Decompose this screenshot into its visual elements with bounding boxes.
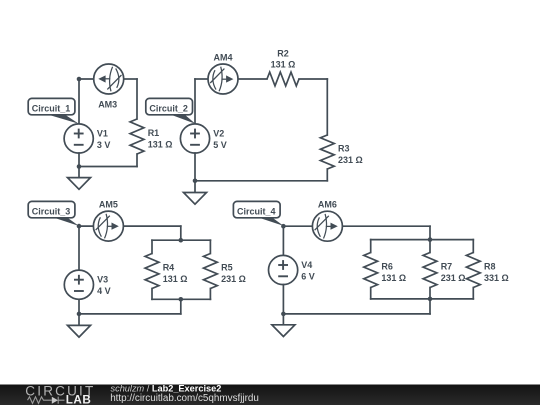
net flag Circuit_1 [28, 98, 79, 123]
wire corner-down-to-R1 [136, 79, 138, 119]
net flag Circuit_2 [146, 98, 196, 123]
wire ground stem c4 [282, 314, 284, 325]
ammeter AM6 [312, 211, 342, 241]
wire down-to-rail c3 [180, 226, 182, 240]
resistor R6 [364, 253, 378, 288]
wire top rail c4 [371, 239, 474, 241]
wire bottom rail c4 [371, 298, 474, 300]
wire R8 bottom lead [472, 288, 474, 299]
wire bottom c2 [195, 180, 327, 182]
svg-text:R8: R8 [484, 262, 496, 272]
wire corner-down-to-R3 [326, 79, 328, 135]
resistor R4 [145, 254, 159, 289]
svg-text:331 Ω: 331 Ω [484, 273, 509, 283]
wire corner-to-AM4 [195, 78, 208, 80]
svg-text:4 V: 4 V [97, 286, 111, 296]
node junction c1 top [77, 77, 82, 82]
svg-text:V3: V3 [97, 275, 108, 285]
resistor R7 [423, 253, 437, 288]
wire node-to-AM5 [79, 225, 93, 227]
wire AM6-right [342, 225, 430, 227]
wire R5 top lead [209, 240, 211, 253]
wire R4 bottom lead [151, 289, 153, 300]
svg-text:R3: R3 [338, 144, 350, 154]
svg-text:AM3: AM3 [98, 99, 117, 109]
svg-text:231 Ω: 231 Ω [441, 273, 466, 283]
svg-text:V4: V4 [301, 260, 312, 270]
svg-text:Circuit_4: Circuit_4 [237, 207, 276, 217]
junction c3 rail bottom [179, 297, 184, 302]
svg-text:V1: V1 [97, 129, 108, 139]
wire top rail c3 [152, 239, 210, 241]
wire R3-to-bottom [326, 169, 328, 181]
svg-text:231 Ω: 231 Ω [221, 274, 246, 284]
junction c4 rail top [428, 237, 433, 242]
node junction c3 bottom [77, 312, 82, 317]
resistor R3 [320, 135, 334, 169]
svg-text:AM5: AM5 [99, 200, 118, 210]
wire rail-down c3 [180, 299, 182, 314]
wire ground stem c2 [194, 181, 196, 193]
net flag Circuit_3 [28, 201, 79, 226]
svg-text:AM6: AM6 [318, 200, 337, 210]
wire R5 bottom lead [209, 289, 211, 300]
svg-text:Circuit_2: Circuit_2 [149, 104, 188, 114]
svg-text:131 Ω: 131 Ω [163, 274, 188, 284]
svg-text:3 V: 3 V [97, 140, 111, 150]
svg-text:R6: R6 [381, 262, 393, 272]
voltage source V2 [180, 124, 209, 153]
wire node-to-AM6 [283, 225, 312, 227]
resistor R8 [466, 253, 480, 288]
svg-text:R4: R4 [163, 263, 175, 273]
svg-text:V2: V2 [213, 129, 224, 139]
svg-text:http://circuitlab.com/c5qhmvsf: http://circuitlab.com/c5qhmvsfjjrdu [110, 393, 259, 404]
svg-text:R1: R1 [148, 128, 160, 138]
resistor R2 [267, 72, 299, 86]
footer bar [0, 385, 540, 405]
wire R7 top lead [429, 240, 431, 253]
svg-text:6 V: 6 V [301, 271, 315, 281]
node junction c1 bottom [77, 164, 82, 169]
wire down-to-rail c4 [429, 226, 431, 239]
svg-text:131 Ω: 131 Ω [271, 60, 296, 70]
svg-text:R7: R7 [441, 262, 453, 272]
ammeter AM4 [208, 64, 238, 94]
wire V1-bottom [78, 153, 80, 167]
wire AM4-to-R2 [238, 78, 267, 80]
svg-text:schulzm / Lab2_Exercise2: schulzm / Lab2_Exercise2 [111, 383, 222, 393]
wire R7 bottom lead [429, 288, 431, 299]
wire R8 top lead [472, 240, 474, 253]
svg-text:LAB: LAB [66, 393, 92, 405]
svg-text:131 Ω: 131 Ω [148, 139, 173, 149]
wire AM5-right [123, 225, 180, 227]
svg-text:AM4: AM4 [213, 53, 232, 63]
resistor R1 [130, 119, 144, 154]
svg-text:R2: R2 [277, 48, 289, 58]
ground c4 [272, 325, 295, 337]
wire V4-bottom [282, 285, 284, 314]
ammeter AM5 [93, 211, 123, 241]
net flag Circuit_4 [233, 201, 283, 226]
wire V3-bottom [78, 299, 80, 314]
svg-text:131 Ω: 131 Ω [381, 273, 406, 283]
wire bottom c4 [283, 313, 430, 315]
wire V2-bottom [194, 153, 196, 181]
wire bottom rail c3 [152, 298, 210, 300]
logo resistor-diode glyph [28, 397, 65, 404]
node junction c2 bottom [193, 179, 198, 184]
voltage source V3 [64, 270, 93, 299]
junction c3 rail top [179, 238, 184, 243]
voltage source V1 [64, 124, 93, 153]
svg-text:Circuit_1: Circuit_1 [32, 104, 71, 114]
wire bottom c1 [79, 166, 137, 168]
wire R4 top lead [151, 240, 153, 253]
wire R6 bottom lead [370, 288, 372, 299]
wire AM3-to-corner [124, 78, 137, 80]
wire rail-down c4 [429, 299, 431, 314]
ammeter AM3 [94, 64, 124, 94]
node junction c3 top [77, 224, 82, 229]
wire V4-top [282, 226, 284, 255]
ground c1 [68, 178, 91, 190]
wire V1-top [78, 79, 80, 124]
svg-text:231 Ω: 231 Ω [338, 155, 363, 165]
wire ground stem c1 [78, 167, 80, 178]
wire bottom c3 [79, 313, 181, 315]
svg-text:Circuit_3: Circuit_3 [32, 207, 71, 217]
voltage source V4 [269, 255, 298, 284]
wire V2-top-up [194, 79, 196, 124]
wire node-to-AM3 [79, 78, 94, 80]
svg-text:5 V: 5 V [213, 140, 227, 150]
svg-text:R5: R5 [221, 263, 233, 273]
ground c3 [68, 325, 91, 337]
node junction c4 bottom [281, 312, 286, 317]
wire V3-top [78, 226, 80, 270]
ground c2 [184, 193, 207, 205]
wire R6 top lead [370, 240, 372, 253]
wire ground stem c3 [78, 314, 80, 326]
resistor R5 [204, 254, 218, 289]
wire R2-to-corner [299, 78, 327, 80]
node junction c4 top [281, 224, 286, 229]
junction c4 rail bottom [428, 297, 433, 302]
wire R1-to-bottom [136, 154, 138, 167]
